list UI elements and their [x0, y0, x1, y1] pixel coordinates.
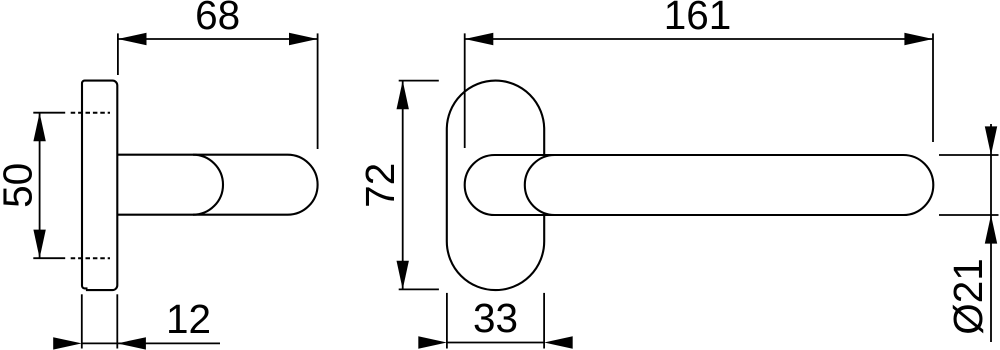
svg-text:Ø21: Ø21 [945, 258, 991, 335]
svg-text:33: 33 [473, 295, 518, 341]
svg-text:161: 161 [664, 0, 732, 38]
svg-text:12: 12 [166, 296, 211, 342]
svg-text:50: 50 [0, 163, 41, 208]
svg-text:68: 68 [195, 0, 240, 38]
svg-text:72: 72 [357, 163, 403, 208]
